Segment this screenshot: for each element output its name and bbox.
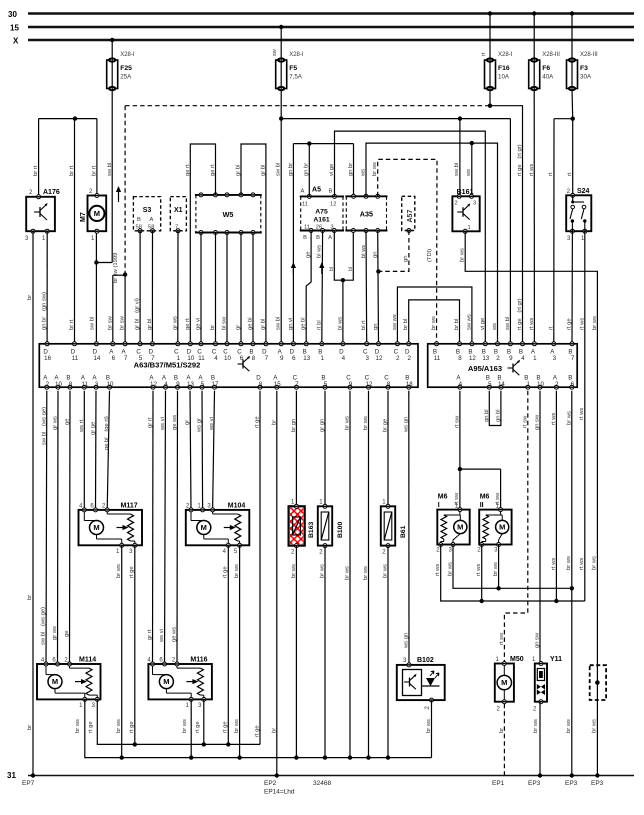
svg-text:rt ws: rt ws (551, 558, 557, 570)
svg-text:br: br (27, 595, 33, 600)
svg-text:bl: bl (329, 267, 335, 271)
power rail 15 (10, 24, 634, 33)
svg-text:31: 31 (7, 771, 16, 780)
svg-text:A: A (328, 235, 332, 241)
rail br ws collector (85, 699, 432, 759)
svg-text:1: 1 (533, 355, 537, 362)
wire br gn C7 to B163-1 (291, 391, 297, 507)
wire br sw to connector A6 (107, 275, 125, 344)
svg-text:rt ws: rt ws (529, 318, 535, 330)
fuse F25 25A (107, 38, 135, 91)
wire br ws C9 to lower rail (345, 391, 351, 758)
svg-text:7: 7 (124, 355, 128, 362)
svg-text:ws: ws (360, 169, 366, 177)
svg-text:br rt: br rt (33, 165, 39, 176)
wire ws rt A11 to M117-4 (79, 391, 85, 510)
svg-text:7,5A: 7,5A (289, 74, 303, 81)
wire br ws B6 to ground EP3 (566, 391, 574, 776)
svg-text:br bl: br bl (403, 319, 409, 330)
wire gr A13 to M104-2 (185, 391, 192, 510)
wire sw bl M7 pin 1 to connector D14 (90, 231, 97, 344)
svg-text:vi ge: vi ge (480, 318, 486, 330)
svg-text:rt ge (rt gr): rt ge (rt gr) (517, 298, 523, 330)
wire sw bl from fuse F25 (107, 89, 113, 263)
svg-text:gn br: gn br (304, 163, 310, 176)
svg-text:4: 4 (214, 355, 218, 362)
svg-text:bl ws: bl ws (337, 317, 343, 330)
svg-text:M: M (94, 209, 100, 218)
svg-text:17: 17 (212, 381, 219, 388)
fuse F5 7,5A (272, 25, 304, 91)
wire br ws Y11-2 to ground EP3 (533, 702, 540, 776)
svg-text:sw ws: sw ws (392, 314, 398, 330)
svg-text:6: 6 (292, 355, 296, 362)
svg-text:br ws: br ws (291, 564, 297, 578)
svg-text:ws vi: ws vi (160, 417, 166, 431)
blower motor M117 (79, 503, 143, 556)
wire gr W5 to connector C6 (236, 233, 242, 344)
power rail 30 (8, 10, 634, 19)
svg-text:7: 7 (265, 355, 269, 362)
svg-text:br ws: br ws (592, 719, 598, 733)
dashed wire br ws A35-3 to A95 B11 (372, 159, 437, 343)
svg-text:X28-III: X28-III (542, 52, 560, 58)
svg-text:10: 10 (537, 381, 544, 388)
ground rail 31 (7, 771, 634, 780)
svg-text:ge bl: ge bl (248, 317, 254, 330)
svg-text:S3: S3 (143, 207, 152, 214)
svg-text:gr bl: gr bl (147, 319, 153, 330)
wire gr bl S3 pin B58 to connector C5 (135, 231, 141, 344)
wire rt ge M104-4 to lower rail (223, 545, 229, 744)
svg-text:br: br (27, 295, 33, 300)
svg-text:8: 8 (458, 355, 462, 362)
wire bl net A75-3 A35-1 to connector D4 (329, 231, 354, 344)
wire br rt to connector D11 (69, 119, 75, 344)
valve Y11 (532, 656, 562, 713)
svg-text:58: 58 (136, 225, 142, 231)
svg-text:br ws: br ws (372, 162, 378, 176)
svg-text:30: 30 (8, 10, 17, 19)
svg-text:br sw: br sw (107, 315, 113, 330)
ground point EP3 b (565, 780, 578, 787)
svg-text:br ws: br ws (382, 564, 388, 578)
svg-text:gr bl (gr vi): gr bl (gr vi) (135, 298, 141, 330)
svg-text:rt ws: rt ws (579, 318, 585, 330)
svg-text:br gn: br gn (291, 419, 297, 432)
wire ge bl A75-11 to connector B13 (301, 231, 312, 344)
svg-text:M: M (499, 523, 505, 532)
svg-text:sw bl (ws ge): sw bl (ws ge) (41, 407, 47, 445)
svg-text:gr gn: gr gn (320, 419, 326, 432)
fuse F6 40A (529, 11, 561, 91)
svg-text:sw bl: sw bl (275, 163, 281, 176)
wire rt ge M114-3 (88, 721, 94, 733)
svg-text:A57: A57 (407, 210, 414, 223)
svg-text:7: 7 (295, 381, 299, 388)
svg-text:gn sw: gn sw (535, 414, 541, 430)
svg-text:ge: ge (64, 631, 70, 637)
svg-text:rt sw: rt sw (499, 632, 505, 645)
photo sensor B102 (397, 657, 445, 710)
wire ge ws B9 to M116-2 (172, 391, 179, 664)
svg-text:ws rt: ws rt (79, 419, 85, 433)
svg-text:10: 10 (55, 381, 62, 388)
svg-text:3: 3 (330, 225, 333, 231)
svg-text:vi ge: vi ge (329, 164, 335, 176)
svg-text:F16: F16 (498, 65, 510, 72)
svg-text:EP2: EP2 (264, 780, 277, 787)
svg-text:II: II (480, 502, 484, 509)
switch S3 (133, 197, 160, 233)
svg-text:W5: W5 (223, 210, 234, 219)
svg-text:A95/A163: A95/A163 (468, 364, 502, 373)
svg-text:br ws: br ws (234, 564, 240, 578)
wire br ws M117-1 to lower rail (116, 545, 122, 757)
svg-text:A35: A35 (360, 210, 373, 219)
wire rt ge S24-3 to A95 B7 (567, 231, 573, 344)
svg-text:rt: rt (548, 326, 554, 330)
svg-text:gn br (gn sw): gn br (gn sw) (42, 292, 48, 330)
svg-text:(TDI): (TDI) (427, 249, 433, 262)
svg-text:sw bl: sw bl (107, 163, 113, 176)
svg-text:8: 8 (252, 355, 256, 362)
svg-text:bl ws: bl ws (361, 245, 367, 258)
wire ge rt bridge W5 to connector D10 (185, 144, 216, 344)
svg-text:12: 12 (330, 202, 336, 208)
svg-text:B161: B161 (457, 189, 474, 196)
wire rt bl A75-26 to connector B1 (316, 231, 322, 344)
svg-text:rt: rt (548, 172, 554, 176)
svg-text:ge ws: ge ws (172, 627, 178, 642)
svg-text:rt ge: rt ge (567, 318, 573, 330)
svg-text:rt ws: rt ws (529, 164, 535, 176)
svg-text:S24: S24 (577, 188, 590, 195)
wire ws vi B17 to M104-3 (209, 391, 215, 510)
svg-text:rt: rt (567, 172, 573, 176)
svg-text:A176: A176 (43, 189, 60, 196)
svg-text:7: 7 (571, 355, 575, 362)
svg-text:ws: ws (466, 169, 472, 177)
svg-text:br sw (1999: br sw (1999 (113, 253, 119, 283)
svg-text:gr ws: gr ws (172, 316, 178, 330)
wire sw ws C2 to A95 B12 (392, 287, 473, 344)
svg-text:rt ws: rt ws (579, 408, 585, 420)
svg-text:13: 13 (303, 355, 310, 362)
svg-text:12: 12 (366, 381, 373, 388)
wire gr gn B5 to B100-1 (320, 391, 326, 507)
svg-text:gn vi: gn vi (288, 318, 294, 330)
wire br ws M104-5 to lower rail (234, 545, 240, 757)
svg-text:br ws: br ws (75, 719, 81, 733)
svg-text:6: 6 (571, 381, 575, 388)
svg-text:br ge: br ge (383, 419, 389, 432)
svg-text:EP7: EP7 (22, 780, 35, 787)
wire br ws B100-2 to lower rail (319, 546, 325, 758)
radiator fan M6 I (436, 494, 469, 554)
wire gr bl bridge W5 to connector D7b (236, 144, 267, 344)
svg-text:br rt: br rt (92, 165, 98, 176)
svg-text:rt ge: rt ge (129, 566, 135, 578)
pump motor M50 (495, 656, 524, 713)
svg-text:bl ws: bl ws (316, 245, 322, 258)
blower motor M104 (186, 503, 250, 556)
ground point EP3 a (528, 780, 541, 787)
svg-text:br ws: br ws (426, 719, 432, 733)
svg-text:gn br: gn br (348, 163, 354, 176)
svg-text:sw bl: sw bl (454, 163, 460, 176)
ground point EP1 (492, 780, 505, 787)
svg-text:EP3: EP3 (591, 780, 604, 787)
svg-text:26: 26 (316, 225, 322, 231)
svg-text:gr bl: gr bl (260, 165, 266, 176)
svg-text:3: 3 (553, 355, 557, 362)
clock W5 (195, 193, 262, 235)
svg-text:M116: M116 (190, 657, 207, 664)
svg-text:5: 5 (324, 381, 328, 388)
switch S24 (566, 188, 591, 242)
svg-text:br: br (271, 420, 277, 425)
svg-text:13: 13 (187, 381, 194, 388)
svg-text:gn bl: gn bl (484, 409, 490, 422)
wire rt ws S24-1 down to fan rail (579, 231, 585, 601)
svg-text:10: 10 (224, 355, 231, 362)
svg-text:br ws: br ws (566, 556, 572, 570)
svg-text:13: 13 (482, 355, 489, 362)
wire vi ge net A5-B12 to A95 B13 (329, 131, 486, 344)
svg-text:br rt: br rt (69, 165, 75, 176)
svg-text:11: 11 (302, 202, 308, 208)
fuse F16 10A (481, 11, 513, 91)
svg-text:rt ge: rt ge (223, 566, 229, 578)
wire rt ge M117-3 to lower rail (129, 545, 135, 744)
wire rt ws F6 to A95 A1 (529, 89, 535, 344)
svg-text:br ws: br ws (363, 416, 369, 430)
fan labels rt ws br ws (435, 562, 499, 576)
svg-text:B102: B102 (417, 657, 434, 664)
svg-text:B100: B100 (337, 522, 344, 538)
radiator fan M6 II (477, 494, 511, 554)
wire ge bl (ge rt) B10 to M117-2 (104, 391, 110, 510)
wire ge vi W5 to connector C11 (196, 233, 202, 344)
wire br ge C8 to B61-1 (383, 391, 389, 507)
svg-text:X28-I: X28-I (498, 52, 513, 58)
connector A95/A163 (428, 342, 578, 389)
svg-text:A: A (150, 217, 154, 223)
svg-text:gr ws: gr ws (52, 626, 58, 640)
dashed wire br M50-2 to ground EP1 (499, 704, 505, 776)
svg-text:6: 6 (112, 355, 116, 362)
wire br ws B161-1 long to EP3 right (459, 231, 599, 775)
svg-text:9: 9 (280, 355, 284, 362)
wire br ws B163-2 to lower rail (291, 546, 297, 758)
svg-text:Y11: Y11 (550, 656, 562, 663)
svg-text:EP1: EP1 (492, 780, 505, 787)
svg-text:2: 2 (407, 355, 411, 362)
svg-text:A63/B37/M51/S292: A63/B37/M51/S292 (134, 361, 201, 370)
svg-text:M114: M114 (79, 657, 96, 664)
svg-text:B163: B163 (308, 522, 315, 538)
svg-text:18: 18 (406, 381, 413, 388)
svg-text:br ws: br ws (363, 566, 369, 580)
svg-text:bl: bl (348, 267, 354, 271)
svg-text:2: 2 (46, 381, 50, 388)
svg-text:br: br (27, 725, 33, 730)
rail rt ge collector (97, 699, 260, 746)
svg-text:ge rt: ge rt (185, 318, 191, 330)
svg-text:F6: F6 (542, 65, 550, 72)
svg-text:12: 12 (376, 355, 383, 362)
svg-text:58: 58 (148, 225, 154, 231)
fuse F3 30A (567, 11, 599, 91)
sensor B61 (381, 500, 407, 556)
svg-text:M: M (457, 523, 463, 532)
svg-text:ge rt: ge rt (210, 164, 216, 176)
svg-text:rt: rt (481, 52, 487, 56)
svg-text:br ws: br ws (345, 566, 351, 580)
svg-text:14: 14 (93, 355, 100, 362)
svg-text:25A: 25A (120, 74, 132, 81)
svg-text:40A: 40A (542, 74, 554, 81)
svg-text:br ws: br ws (182, 719, 188, 733)
svg-text:rt ge: rt ge (195, 721, 201, 733)
dashed wire gn A57 to D12 wire (378, 231, 409, 272)
motor M7 (80, 189, 106, 242)
svg-text:I: I (438, 502, 440, 509)
svg-text:br ws: br ws (533, 719, 539, 733)
svg-text:sw bl: sw bl (505, 317, 511, 330)
svg-text:9: 9 (349, 381, 353, 388)
svg-text:EP3: EP3 (528, 780, 541, 787)
wire ge bl W5 to connector B8 (248, 233, 254, 344)
svg-text:ge: ge (306, 252, 312, 258)
svg-text:br ws: br ws (566, 719, 572, 733)
dashed wire rt sw B1 to M50 (499, 391, 529, 663)
svg-text:sw bl: sw bl (90, 317, 96, 330)
svg-text:X1: X1 (174, 207, 183, 214)
svg-text:10A: 10A (498, 74, 510, 81)
svg-text:ge: ge (65, 419, 71, 425)
svg-text:3: 3 (473, 201, 476, 207)
control unit A5 / A75 / A161 (300, 187, 344, 242)
svg-text:M: M (201, 523, 207, 532)
wire gr ws X1 pin 7 to connector C1 (172, 231, 178, 344)
svg-text:ge rt: ge rt (185, 164, 191, 176)
svg-text:X28-I: X28-I (289, 52, 304, 58)
sensor B100 (318, 500, 344, 556)
svg-text:32468: 32468 (313, 780, 331, 787)
svg-text:X28-III: X28-III (580, 52, 598, 58)
svg-text:rt sw: rt sw (522, 415, 528, 428)
wire br-rt horizontal A176/M7 feed (39, 116, 97, 120)
central connector A63/B37/M51/S292 (39, 342, 418, 389)
svg-text:br ws: br ws (431, 316, 437, 330)
svg-text:br rt: br rt (69, 319, 75, 330)
svg-text:2: 2 (396, 355, 400, 362)
note TDI (427, 249, 433, 262)
power rail X (13, 37, 634, 46)
svg-text:br ws: br ws (319, 564, 325, 578)
svg-text:EP3: EP3 (565, 780, 578, 787)
svg-text:A161: A161 (313, 217, 329, 224)
wire rt ge M116-3 (195, 699, 204, 744)
svg-text:br ws: br ws (234, 719, 240, 733)
wire sw bl fuse F5 to connector A9 (275, 89, 283, 344)
svg-text:gr rt: gr rt (147, 629, 153, 640)
svg-text:F25: F25 (120, 65, 132, 72)
wire rt F3 to S24 pin 2 (567, 119, 573, 196)
svg-text:F5: F5 (289, 65, 297, 72)
svg-text:br ws: br ws (116, 719, 122, 733)
continuation arrow on B1 wire (319, 262, 324, 274)
svg-text:M50: M50 (510, 656, 524, 663)
svg-text:sw bl: sw bl (276, 317, 282, 330)
wire br rt to M7 pin 2 (92, 119, 98, 196)
svg-text:11: 11 (434, 355, 441, 362)
svg-text:M104: M104 (228, 503, 246, 510)
svg-text:bl rt: bl rt (361, 320, 367, 330)
svg-text:rt ge: rt ge (129, 721, 135, 733)
svg-text:2: 2 (455, 201, 458, 207)
svg-text:ge ws: ge ws (172, 415, 178, 430)
heater blower M114 (37, 657, 101, 710)
svg-text:14: 14 (498, 381, 505, 388)
svg-text:3: 3 (365, 355, 369, 362)
wire bl sw W5 to connector C10 (222, 233, 228, 344)
svg-text:X28-I: X28-I (120, 52, 135, 58)
svg-text:gr ws: gr ws (53, 416, 59, 430)
wire rt ge D8 to lower rail (255, 391, 261, 745)
svg-text:gn: gn (372, 252, 378, 258)
svg-text:ge vi: ge vi (196, 318, 202, 330)
control unit B161 (452, 189, 479, 233)
svg-text:rt bl: rt bl (316, 320, 322, 330)
svg-text:9: 9 (509, 355, 513, 362)
svg-text:gn br: gn br (288, 163, 294, 176)
svg-text:10: 10 (107, 381, 114, 388)
svg-text:B61: B61 (400, 525, 407, 538)
wire sw bl (ws ge) A2 to M114-4 (41, 391, 48, 664)
wire rt to A95 A3 (548, 119, 554, 344)
wire br sw to connector A7 (120, 275, 126, 344)
wire br ws B102-2 to lower rail (426, 700, 432, 758)
svg-text:5: 5 (201, 381, 205, 388)
wire gn A35/A57 to connector D12 (372, 231, 380, 344)
svg-text:br ws: br ws (592, 556, 598, 570)
svg-text:bl sw: bl sw (222, 316, 228, 330)
svg-text:B: B (329, 189, 333, 195)
connector X1 (170, 197, 186, 233)
svg-text:B: B (137, 217, 141, 223)
svg-text:4: 4 (164, 381, 168, 388)
wire br ws M114-1 (75, 699, 85, 733)
wire br ws B61-2 to lower rail (382, 546, 388, 758)
svg-text:br ws: br ws (592, 316, 598, 330)
wire gr ge A3 to M117-6 (91, 391, 97, 510)
wire ws gr A5 to M104-1 (197, 391, 203, 510)
svg-text:gn: gn (403, 256, 409, 262)
svg-text:X: X (13, 37, 19, 46)
wire rt ws fan rail lower (441, 545, 585, 604)
svg-text:sw bl (ws ge): sw bl (ws ge) (41, 607, 47, 645)
control unit A35 (345, 194, 387, 232)
svg-text:ws vi: ws vi (159, 629, 165, 643)
svg-text:12: 12 (150, 381, 157, 388)
svg-text:2: 2 (496, 355, 500, 362)
svg-text:br: br (271, 728, 277, 733)
wire gr bl S3 pin A58 to connector D7 (147, 231, 153, 344)
continuation arrow br sw (1999) (113, 186, 121, 283)
